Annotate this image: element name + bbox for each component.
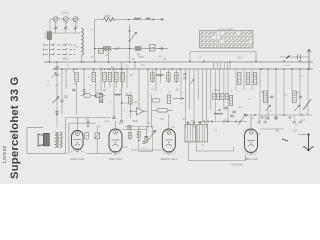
capacitor C12 <box>270 96 273 98</box>
tube V1 <box>72 131 84 152</box>
capacitor C6 block <box>150 45 156 52</box>
resistor R1 zigzag <box>104 18 115 22</box>
band switch row S1 <box>44 43 76 46</box>
title Supercelohet 33 G <box>5 77 23 180</box>
switch arm S4 <box>130 32 137 41</box>
svg-text:220: 220 <box>275 130 280 133</box>
capacitor row dark <box>212 94 215 100</box>
switch arm mid <box>238 114 246 125</box>
capacitor C6a block <box>98 49 103 54</box>
wire drop lines middle <box>153 69 309 115</box>
wire rail A <box>44 61 313 63</box>
node box top dots <box>76 68 124 70</box>
resistor R25 rounded <box>93 94 106 98</box>
switch arm right1 <box>265 105 271 111</box>
switch arm right2 <box>294 105 300 111</box>
speaker LS <box>38 133 49 146</box>
mains plug arrow <box>298 133 314 151</box>
capacitor C12b <box>299 96 302 98</box>
antenna arrow <box>307 49 311 70</box>
paper grain <box>0 0 1 1</box>
wire gang bottom rail <box>50 32 80 34</box>
capacitor C20 dark <box>137 131 140 137</box>
transformer top marks <box>187 122 201 124</box>
diode arrow <box>158 47 163 51</box>
resistor R6 box <box>108 73 112 82</box>
wire rail link x135 <box>134 62 136 69</box>
svg-text:mm: mm <box>191 120 195 123</box>
resistor R15 box <box>175 73 178 82</box>
capacitor C14 <box>298 55 301 60</box>
node IF dot <box>129 48 131 50</box>
svg-text:4x0,1: 4x0,1 <box>214 89 221 92</box>
capacitor C22 pair right <box>258 115 267 123</box>
title Lorenz <box>2 145 8 163</box>
svg-text:1000: 1000 <box>105 14 111 18</box>
tube V2 <box>109 129 122 154</box>
wire IF drop <box>108 51 110 62</box>
tube V4 <box>245 129 258 155</box>
wire tube1 anode <box>76 118 78 131</box>
capacitor marks left cluster <box>60 94 128 102</box>
node osc B <box>129 40 131 42</box>
wire intertube bottom <box>122 147 153 151</box>
resistor R16 box <box>238 73 241 85</box>
wire trimmer drops <box>56 21 76 33</box>
resistor R3 box <box>75 73 79 82</box>
svg-text:110: 110 <box>293 130 297 133</box>
fuse dash <box>286 56 290 59</box>
tube V3 <box>162 129 175 154</box>
switch table marks <box>201 32 252 46</box>
resistor R4 box <box>92 73 96 82</box>
capacitor C21 dark <box>145 136 148 142</box>
switch arm mid2 <box>189 80 194 86</box>
wire intertube link <box>131 149 163 151</box>
node cluster dots rail <box>54 68 56 70</box>
mid tick marks <box>208 120 240 123</box>
resistor R23 box <box>230 96 233 106</box>
coil L3b secondary <box>103 49 111 51</box>
misc junction dots <box>49 60 309 116</box>
svg-text:2 Y08 2608: 2 Y08 2608 <box>229 162 243 166</box>
table feet ticks <box>202 48 251 49</box>
resistor R19 box <box>263 91 267 103</box>
wire L2 bottom <box>81 55 83 62</box>
wire mid verticals <box>114 62 156 128</box>
switch arm left mid <box>53 97 60 104</box>
switch table border <box>200 31 253 48</box>
AC symbol <box>282 139 288 141</box>
svg-text:Drehko: Drehko <box>62 12 70 15</box>
wire speaker top <box>27 127 111 153</box>
wire tube2 anode <box>115 121 117 130</box>
switch arm small left <box>52 73 57 79</box>
capacitor C26 pair <box>183 74 186 80</box>
trimmer capacitor T3 <box>73 26 77 29</box>
resistor R26 rounded <box>152 99 160 103</box>
wire rail B <box>53 68 313 70</box>
variable capacitor C1c <box>73 17 78 22</box>
wire tube3 anode <box>168 114 170 130</box>
resistor R20 box <box>292 91 296 103</box>
capacitor C15 <box>224 107 227 109</box>
capacitor C25 with dot <box>55 111 58 115</box>
wire intertube top <box>125 126 153 151</box>
trimmer capacitor T2 <box>64 26 68 29</box>
capacitor C19 dark <box>128 133 131 139</box>
resistor R12 box <box>151 73 154 82</box>
coil L8 small <box>214 113 223 115</box>
terminal post 2 <box>275 117 277 119</box>
wire det links <box>122 103 148 111</box>
resistor R24 rounded <box>81 94 94 98</box>
tube pin ticks <box>70 151 258 153</box>
svg-text:Tr: Tr <box>202 144 204 147</box>
resistor R7 box <box>115 73 119 82</box>
svg-text:5000: 5000 <box>132 120 138 123</box>
coil L4a <box>135 47 141 49</box>
svg-text:RENS 1204: RENS 1204 <box>161 157 178 161</box>
node det <box>130 110 132 112</box>
terminal post 1 <box>267 117 269 119</box>
wire TR links outer loop <box>189 142 246 161</box>
wire cluster verticals <box>62 69 127 115</box>
variable capacitor C1a <box>53 17 58 22</box>
svg-text:RES 164: RES 164 <box>245 157 258 161</box>
capacitor C11 <box>112 117 115 119</box>
svg-text:5000: 5000 <box>142 148 148 150</box>
capacitor C17 <box>86 118 89 127</box>
transformer TR1 primary <box>185 125 195 142</box>
wire lower right horizontals <box>246 115 312 129</box>
capacitor C7 <box>55 62 58 80</box>
wire rail link x230 <box>229 62 231 69</box>
band switch row S2 <box>44 48 76 51</box>
switch arm intertube <box>148 131 156 141</box>
resistor R10 box <box>129 96 132 105</box>
band switch row S3 <box>44 53 76 56</box>
resistor R11 rounded <box>157 109 168 113</box>
wire osc vertical <box>129 24 131 62</box>
resistor R17 box <box>246 73 249 85</box>
capacitor C28 dark box <box>85 133 89 140</box>
transformer TR2 secondary <box>197 125 207 142</box>
resistor R22 box <box>167 95 170 104</box>
wire tube4 anode <box>250 115 252 129</box>
coil L5 small <box>114 94 122 96</box>
wire antenna branch <box>280 56 309 58</box>
coil L2 oscillator <box>82 28 84 55</box>
wire left column down <box>56 80 58 127</box>
triangle detector <box>137 108 144 116</box>
wire R11 leads <box>152 109 174 111</box>
node rail dots right <box>259 68 261 70</box>
svg-text:REN 1104: REN 1104 <box>70 157 84 161</box>
coil L1 antenna with core <box>47 32 51 40</box>
wire below table <box>190 52 256 69</box>
wire arrow mid <box>173 98 184 100</box>
capacitor C27 <box>142 142 145 144</box>
squiggle link <box>115 48 119 50</box>
wire gang left drop long <box>49 33 51 62</box>
resistor R5 box <box>103 73 107 82</box>
wire after R1 <box>112 19 164 21</box>
capacitor C8 <box>72 89 75 91</box>
coil L9 on top wire <box>134 18 141 20</box>
wire table feed lines <box>181 69 228 128</box>
wire L1 taps <box>45 34 48 38</box>
wire intertube mid <box>121 129 148 131</box>
coil L10 on top wire <box>146 18 151 20</box>
node mid dots <box>203 121 205 123</box>
resistor R18 box <box>253 73 256 85</box>
trimmer capacitor T1 <box>54 21 58 29</box>
variable capacitor C1b <box>63 17 68 22</box>
node osc A <box>129 30 131 32</box>
switch table grid <box>200 31 253 48</box>
svg-text:REN 904: REN 904 <box>109 157 122 161</box>
capacitor C9 <box>82 90 85 92</box>
capacitor C24 dark square <box>128 126 131 130</box>
capacitor C13 <box>230 115 233 117</box>
node intertube <box>138 140 140 142</box>
wire IF row <box>95 48 168 50</box>
wire gang top rail <box>50 18 80 20</box>
resistor R14 box <box>167 73 170 82</box>
value labels scattered <box>55 22 305 148</box>
coil L7 small <box>156 75 163 77</box>
coil L6 output transformer <box>55 132 62 148</box>
contact circle mid <box>121 120 123 122</box>
resistor R9 box <box>99 94 103 103</box>
resistor R8 box <box>121 73 125 82</box>
node row2 <box>83 93 85 95</box>
coil L4b secondary <box>135 49 141 51</box>
wire trafo verticals <box>66 118 111 154</box>
wire plate lead corner <box>95 20 104 63</box>
svg-text:2x0,1: 2x0,1 <box>63 58 70 61</box>
capacitor C18 diagonal <box>94 127 100 153</box>
capacitor C10 <box>94 95 97 97</box>
capacitor C16 <box>232 111 235 113</box>
right side contact circles <box>261 116 291 118</box>
svg-text:Wellenschalter: Wellenschalter <box>218 28 234 31</box>
svg-text:Lichtant.: Lichtant. <box>282 64 291 67</box>
node top wire dots <box>128 19 130 21</box>
coil L3a <box>103 46 111 48</box>
wire gang left drop <box>49 19 51 33</box>
wire mid horizontal <box>197 121 247 123</box>
top wire end tick <box>161 19 164 21</box>
mains switch <box>303 99 311 110</box>
capacitor C23 pair right <box>293 115 302 123</box>
